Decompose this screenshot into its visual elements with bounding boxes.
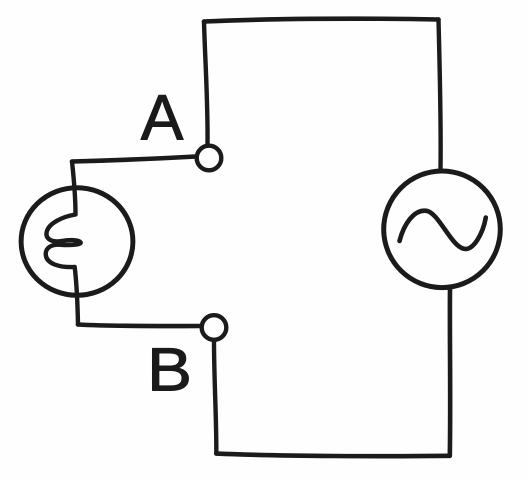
AC source circle — [384, 171, 501, 288]
wire right vertical from top to AC source — [439, 20, 441, 170]
node B terminal circle — [202, 315, 227, 340]
wire down into lamp and filament squiggle — [46, 162, 81, 325]
wire from node B down — [214, 341, 216, 454]
svg-text:A: A — [141, 82, 184, 154]
wire bottom-left horizontal to node B — [78, 325, 201, 327]
wire from node A to left — [72, 157, 196, 162]
wire bottom horizontal — [216, 454, 449, 457]
lamp L1 circle — [21, 188, 133, 296]
svg-text:B: B — [147, 336, 192, 405]
wire top horizontal — [204, 19, 439, 22]
wire right vertical from bottom to AC source — [447, 290, 452, 456]
wire left vertical from top to node A — [204, 22, 208, 145]
node A terminal circle — [197, 146, 222, 171]
AC sine wave — [400, 211, 486, 249]
